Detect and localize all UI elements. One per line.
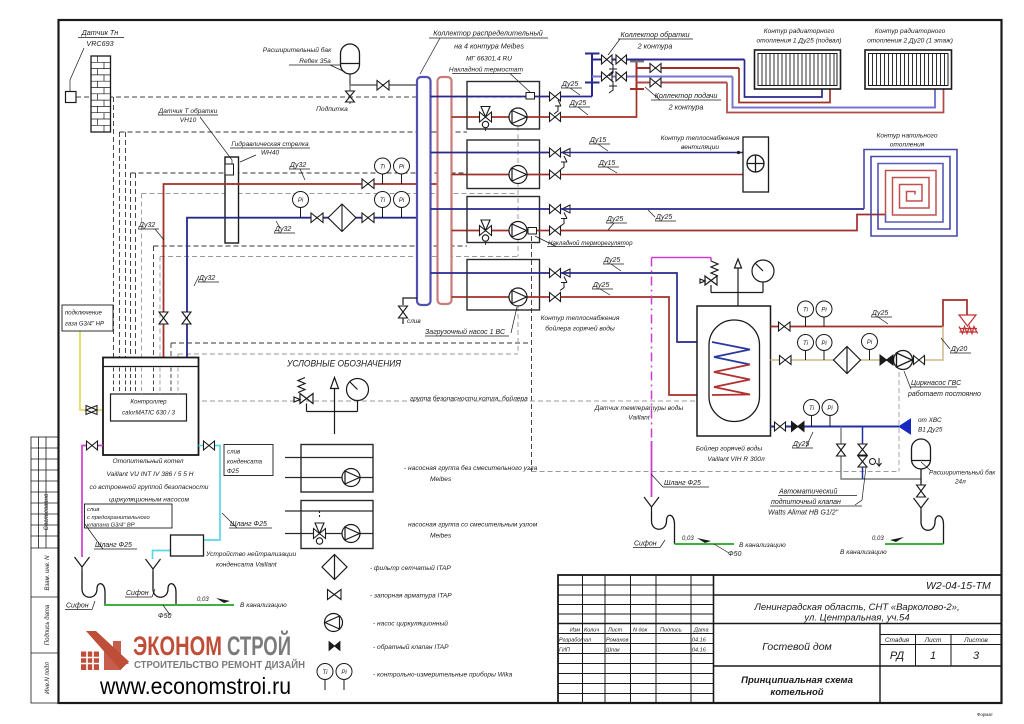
check valve recirc [880, 355, 893, 365]
svg-text:бойлера горячей воды: бойлера горячей воды [545, 325, 615, 333]
svg-text:Сифон: Сифон [66, 603, 89, 610]
funnel at expansion drain [914, 498, 929, 511]
svg-text:Ленинградская область, СНТ «Ва: Ленинградская область, СНТ «Варколово-2»… [753, 602, 959, 613]
svg-text:ул. Центральная, уч.54: ул. Центральная, уч.54 [803, 613, 909, 624]
DHW recirculation line beige [771, 327, 944, 361]
filter on recirc [834, 347, 861, 374]
valve after recirc pump [914, 356, 925, 365]
svg-text:Разработал: Разработал [559, 638, 591, 644]
gauges Ti Pi on red [375, 158, 410, 184]
gauge Pi on blue [293, 192, 309, 218]
svg-text:- фильтр сетчатый ITAP: - фильтр сетчатый ITAP [370, 564, 451, 572]
funnel left [75, 557, 90, 571]
relief drain magenta left [82, 446, 103, 558]
svg-text:Подпись: Подпись [660, 628, 682, 634]
ventilation heater box [743, 137, 769, 192]
svg-text:Ду32: Ду32 [289, 162, 306, 169]
filter on blue line [328, 204, 356, 232]
wire to make-up valve [532, 471, 900, 473]
make-up auto valve branch blue [862, 427, 864, 480]
group feed stubs blue [431, 97, 468, 274]
label leaders [84, 38, 950, 615]
group feed stubs red [452, 117, 468, 297]
svg-text:слив: слив [87, 507, 99, 513]
svg-text:слив: слив [407, 318, 421, 325]
svg-text:ЭКОНОМ: ЭКОНОМ [133, 631, 222, 661]
cold water line HVS [771, 426, 900, 428]
svg-text:2 контура: 2 контура [668, 103, 704, 112]
mixing valve G3 [480, 220, 492, 241]
svg-text:УСЛОВНЫЕ ОБОЗНАЧЕНИЯ: УСЛОВНЫЕ ОБОЗНАЧЕНИЯ [286, 359, 402, 369]
svg-text:Vaillant VIH R 300л: Vaillant VIH R 300л [707, 456, 765, 463]
svg-text:Коллектор подачи: Коллектор подачи [655, 91, 718, 100]
logo economstroi [80, 630, 305, 699]
svg-text:Ti: Ti [803, 308, 809, 314]
svg-text:- контрольно-измерительные при: - контрольно-измерительные приборы Wika [373, 671, 513, 679]
svg-text:отопления 1 Ду25 (подвал): отопления 1 Ду25 (подвал) [756, 37, 841, 45]
valve on blue riser [182, 312, 191, 324]
gas pipe yellow [80, 331, 103, 410]
svg-text:Vaillant: Vaillant [628, 415, 651, 422]
legend safety valve [294, 378, 358, 435]
svg-text:Листов: Листов [963, 637, 988, 644]
pipe G1 blue to return collector [561, 96, 593, 98]
siphon boiler drain [652, 512, 675, 544]
valve on blue line right [362, 213, 374, 223]
svg-text:Reflex 35а: Reflex 35а [299, 58, 331, 65]
svg-text:Контур теплоснабжения: Контур теплоснабжения [661, 134, 740, 142]
sewer line left [104, 604, 234, 606]
svg-text:Шланг Ф25: Шланг Ф25 [664, 480, 701, 487]
pipe boiler supply red Du32 [164, 184, 438, 358]
svg-text:calorMATIC 630 / 3: calorMATIC 630 / 3 [122, 410, 175, 417]
legend check valve [329, 642, 340, 651]
svg-text:Подпитка: Подпитка [316, 105, 348, 113]
mixing valve G1 [480, 107, 492, 128]
pump P4 loading [509, 288, 527, 306]
svg-text:Дата: Дата [693, 628, 709, 634]
wire thermostat G3 [531, 236, 533, 472]
svg-text:клапана G3/4" ВР: клапана G3/4" ВР [87, 523, 135, 529]
svg-text:Watts Alimat HB G1/2": Watts Alimat HB G1/2" [768, 510, 839, 517]
underlines [65, 38, 971, 610]
svg-text:конденсата: конденсата [227, 459, 263, 466]
svg-text:Ф25: Ф25 [227, 468, 239, 475]
svg-text:В канализацию: В канализацию [739, 542, 786, 549]
svg-text:Ду25: Ду25 [871, 310, 888, 317]
left stamp column [31, 437, 59, 703]
pipe boiler return blue Du32 [187, 218, 417, 358]
slope mark left [216, 598, 230, 603]
svg-text:Pi: Pi [827, 406, 833, 412]
wire bundle verticals to controller [114, 97, 172, 394]
svg-text:W2-04-15-TM: W2-04-15-TM [926, 580, 991, 592]
svg-text:отопления 2 Ду20 (1 этаж): отопления 2 Ду20 (1 этаж) [867, 38, 953, 45]
svg-text:Meibes: Meibes [430, 533, 452, 540]
recirc pump GVS [894, 351, 913, 370]
radiator 1 [755, 50, 841, 89]
svg-text:Ду25: Ду25 [561, 81, 578, 88]
valve on red line [362, 179, 374, 189]
magenta relief drain pipe [652, 258, 712, 498]
svg-text:Ду15: Ду15 [598, 160, 615, 167]
svg-text:Накладной терморегулятор: Накладной терморегулятор [548, 240, 633, 247]
gauges Ti Pi on recirc [798, 335, 833, 361]
svg-text:Коллектор обратки: Коллектор обратки [621, 30, 690, 39]
svg-text:1: 1 [930, 650, 936, 662]
gauges Ti Pi on DHW supply [798, 301, 833, 327]
svg-text:Накладной термостат: Накладной термостат [449, 66, 524, 74]
valve on red riser [159, 312, 168, 324]
boiler DHW circuit pipes [561, 273, 713, 342]
svg-text:слив: слив [227, 449, 241, 456]
svg-text:МГ 66301.4 RU: МГ 66301.4 RU [466, 56, 512, 63]
controller calorMATIC box [111, 394, 187, 421]
floor heating coil [864, 150, 957, 237]
hydraulic separator WH40 [224, 157, 240, 243]
valve on tank line [377, 81, 389, 91]
svg-text:N док: N док [633, 628, 648, 634]
valve on blue line left [311, 213, 323, 223]
wire horizontals [120, 131, 468, 133]
brick wall [91, 56, 111, 132]
expansion tank 24l [912, 439, 931, 469]
svg-text:Инв.N подл: Инв.N подл [45, 662, 51, 694]
pipe G1 red to supply collector [561, 89, 637, 117]
svg-text:Ду25: Ду25 [603, 257, 620, 264]
svg-text:Шпак: Шпак [606, 648, 620, 654]
svg-text:Принципиальная схема: Принципиальная схема [741, 675, 853, 686]
svg-text:от ХВС: от ХВС [918, 417, 942, 424]
make-up branch gray [841, 427, 921, 480]
svg-text:Гидравлическая стрелка: Гидравлическая стрелка [231, 140, 309, 148]
svg-text:Устройство нейтрализации: Устройство нейтрализации [205, 550, 296, 558]
svg-text:24л: 24л [954, 479, 966, 486]
svg-text:Взам. инв. N: Взам. инв. N [45, 555, 51, 591]
boiler Vaillant VU INT [103, 358, 199, 456]
radiator 2 [865, 50, 952, 89]
svg-text:Ду32: Ду32 [138, 222, 155, 229]
svg-text:Бойлер горячей воды: Бойлер горячей воды [696, 445, 763, 453]
svg-text:Pi: Pi [341, 670, 347, 676]
reducers on blue G2,G3,G4 outlets [562, 149, 570, 278]
supply collector 2 circuits [630, 62, 739, 90]
svg-text:Ду25: Ду25 [655, 214, 672, 221]
svg-text:VRC693: VRC693 [86, 39, 113, 48]
svg-text:Лист: Лист [607, 628, 623, 634]
svg-text:Циркнасос ГВС: Циркнасос ГВС [911, 380, 962, 387]
siphon left [82, 571, 105, 605]
svg-text:Согласовано: Согласовано [44, 493, 50, 530]
tank coil red [712, 365, 750, 396]
legend [285, 359, 538, 691]
svg-text:Колич: Колич [584, 628, 599, 634]
svg-text:0,03: 0,03 [682, 536, 694, 542]
svg-text:Контур радиаторного: Контур радиаторного [764, 27, 835, 35]
svg-text:РД: РД [890, 650, 904, 662]
siphon mid [153, 572, 176, 605]
svg-text:Vaillant VU INT IV 386 / 5 5 H: Vaillant VU INT IV 386 / 5 5 H [107, 471, 194, 478]
condensate drain cyan [153, 446, 221, 560]
svg-text:Pi: Pi [821, 341, 827, 347]
svg-text:с предохранительного: с предохранительного [87, 515, 151, 521]
svg-text:Ф50: Ф50 [728, 551, 741, 558]
legend filter [322, 555, 347, 580]
funnel at boiler drain [644, 497, 659, 512]
svg-text:Ду25: Ду25 [606, 216, 623, 223]
annotation labels [66, 27, 996, 620]
svg-text:Ду25: Ду25 [592, 282, 609, 289]
svg-text:Pi: Pi [821, 308, 827, 314]
outlet valves right of groups [550, 92, 561, 302]
svg-text:конденсата Vaillant: конденсата Vaillant [216, 561, 278, 569]
svg-text:Сифон: Сифон [126, 590, 149, 597]
expansion tank Reflex 35a [350, 74, 417, 85]
svg-text:СТРОИТЕЛЬСТВО РЕМОНТ ДИЗАЙН: СТРОИТЕЛЬСТВО РЕМОНТ ДИЗАЙН [134, 658, 305, 671]
svg-text:Отопительный котел: Отопительный котел [112, 457, 183, 465]
group internal lines [467, 97, 549, 274]
svg-text:Расширительный бак: Расширительный бак [263, 46, 332, 54]
svg-text:- насосная группа без смесител: - насосная группа без смесительного узла [404, 464, 538, 472]
thermostat G1 [526, 93, 535, 100]
wire pumps vertical [517, 126, 519, 257]
svg-text:группа безопасности котла, бой: группа безопасности котла, бойлера [410, 395, 528, 403]
svg-text:Подпись дата: Подпись дата [45, 604, 51, 645]
gas connection label box [62, 305, 113, 331]
shower head [959, 315, 978, 334]
svg-text:Ti: Ti [809, 406, 815, 412]
svg-text:Контур радиаторного: Контур радиаторного [875, 27, 946, 35]
DHW supply line to shower [771, 300, 968, 327]
svg-text:Ti: Ti [323, 670, 329, 676]
svg-text:Автоматический: Автоматический [778, 488, 837, 496]
svg-text:- обратный клапан ITAP: - обратный клапан ITAP [373, 643, 449, 651]
valve relief drain [87, 441, 98, 450]
svg-text:Расширительный бак: Расширительный бак [929, 469, 996, 477]
collector distribution bars [417, 77, 452, 305]
sewer line right [885, 543, 944, 545]
ventilation circuit pipes Du15 [561, 152, 744, 154]
svg-text:циркуляционным насосом: циркуляционным насосом [109, 497, 189, 504]
svg-text:отопления: отопления [890, 142, 925, 149]
valves supply collector [650, 64, 661, 88]
svg-text:Ti: Ti [380, 165, 386, 171]
svg-text:2 контура: 2 контура [637, 42, 673, 51]
svg-text:3: 3 [973, 650, 980, 662]
svg-text:Ду32: Ду32 [274, 226, 291, 233]
drain ticks return collector [609, 64, 617, 93]
return collector 2 circuits [585, 54, 745, 97]
valve on HVS [775, 422, 786, 431]
svg-text:Датчик Тн: Датчик Тн [81, 28, 119, 37]
svg-text:на 4 контура Meibes: на 4 контура Meibes [454, 42, 524, 51]
svg-text:Ду20: Ду20 [950, 346, 967, 353]
safety gauge [752, 260, 774, 282]
make-up valve podpitka [346, 85, 355, 104]
svg-text:подпиточный клапан: подпиточный клапан [771, 498, 841, 506]
house icon [80, 631, 129, 670]
legend valve [328, 590, 342, 600]
legend pump group box 1 [285, 445, 373, 493]
neutralizer box [171, 535, 204, 556]
control wiring dashed [76, 97, 899, 472]
svg-text:газа G3/4" НР: газа G3/4" НР [65, 322, 104, 328]
gauge Pi recirc pump [862, 334, 878, 361]
svg-text:- насос циркуляционный: - насос циркуляционный [373, 620, 448, 628]
svg-text:Лист: Лист [924, 637, 942, 644]
outdoor sensor Tn [66, 92, 77, 103]
leader to P4 [511, 307, 517, 333]
svg-text:Датчик температуры воды: Датчик температуры воды [594, 404, 684, 412]
svg-text:Ду25: Ду25 [569, 100, 586, 107]
valve on recirc at boiler [780, 356, 792, 365]
svg-text:Meibes: Meibes [430, 476, 452, 483]
svg-text:Ду15: Ду15 [589, 137, 606, 144]
svg-text:Pi: Pi [399, 165, 405, 171]
leader makeup valve [855, 467, 866, 505]
slope mark [697, 538, 711, 543]
svg-text:0,03: 0,03 [197, 597, 209, 603]
svg-text:Ti: Ti [803, 341, 809, 347]
pump P3 [509, 222, 527, 240]
svg-text:Pi: Pi [399, 198, 405, 204]
legend gauges TiPi [317, 664, 352, 691]
sliv condensata box [224, 445, 273, 476]
svg-text:Загрузочный насос 1 ВС: Загрузочный насос 1 ВС [425, 328, 506, 336]
drain ticks under blue outlet valves [554, 100, 567, 291]
svg-text:вентиляции: вентиляции [681, 144, 719, 151]
tank coil blue [712, 342, 750, 365]
svg-text:ГИП: ГИП [559, 648, 570, 654]
svg-text:Изм: Изм [570, 628, 580, 634]
svg-text:Романов: Романов [606, 638, 629, 644]
svg-text:Контроллер: Контроллер [130, 399, 167, 406]
sewer line middle [675, 543, 735, 545]
svg-text:Контур теплоснабжения: Контур теплоснабжения [541, 314, 620, 322]
pump P2 [509, 166, 527, 184]
svg-text:04.16: 04.16 [692, 638, 707, 644]
radiator circuit 1 piping [745, 60, 823, 98]
slope mark right [890, 537, 904, 542]
valves return collector row1 [602, 55, 627, 81]
sliv predohr box [85, 504, 173, 529]
wire sensor Tn to thermostat G1 [76, 96, 526, 98]
svg-text:0,03: 0,03 [872, 536, 884, 542]
HVS inlet triangle [899, 419, 911, 434]
svg-text:подключение: подключение [65, 311, 102, 317]
svg-text:Гостевой дом: Гостевой дом [762, 641, 832, 653]
safety group boiler: relief valve [700, 259, 763, 306]
radiator circuit 2 piping [733, 77, 936, 108]
wire stubs into controller [114, 368, 172, 395]
wire mixing valve G1 stub [485, 127, 487, 132]
svg-text:В канализацию: В канализацию [840, 549, 887, 556]
wire to boiler water sensor [186, 400, 697, 402]
svg-text:VH10: VH10 [180, 117, 197, 124]
pump P1 [509, 108, 527, 126]
legend pump group box 2 [285, 501, 373, 549]
svg-text:- запорная арматура ITAP: - запорная арматура ITAP [370, 593, 452, 600]
svg-text:Датчик Т обратки: Датчик Т обратки [158, 107, 218, 115]
svg-text:Сифон: Сифон [634, 541, 657, 548]
gauges Ti Pi on blue [375, 192, 410, 218]
gauges Ti Pi on HVS [804, 400, 839, 427]
svg-text:04.16: 04.16 [692, 648, 707, 654]
valve condensate [204, 441, 215, 450]
collector drain [403, 298, 417, 305]
svg-text:насосная группа со смесительны: насосная группа со смесительным узлом [408, 522, 538, 529]
svg-text:котельной: котельной [770, 687, 823, 698]
check valve on HVS [792, 422, 805, 432]
floor heating circuit pipes Du25 [561, 208, 865, 210]
svg-text:Ду32: Ду32 [198, 275, 215, 282]
svg-text:Формат: Формат [977, 712, 993, 717]
DHW tank Vaillant VIH R 300 [697, 306, 771, 436]
svg-text:WH40: WH40 [261, 150, 280, 157]
svg-text:www.economstroi.ru: www.economstroi.ru [99, 673, 291, 699]
pump group boxes [467, 82, 540, 311]
legend gauge [347, 379, 369, 401]
svg-text:работает постоянно: работает постоянно [907, 390, 981, 398]
svg-text:Стадия: Стадия [885, 636, 910, 644]
svg-text:Контур напольного: Контур напольного [876, 133, 937, 140]
funnel mid [146, 559, 161, 572]
svg-text:СТРОЙ: СТРОЙ [227, 630, 291, 661]
gas valve [86, 406, 97, 415]
svg-text:Коллектор распределительный: Коллектор распределительный [433, 29, 543, 38]
svg-text:Pi: Pi [298, 198, 304, 204]
title block [558, 575, 1002, 703]
svg-text:В канализацию: В канализацию [240, 602, 287, 609]
legend pump [325, 614, 343, 632]
svg-text:со встроенной группой безопасн: со встроенной группой безопасности [90, 483, 209, 491]
valve on DHW supply [779, 322, 791, 331]
svg-text:Ti: Ti [380, 198, 386, 204]
siphon right [921, 511, 944, 544]
leader датчик Тн [70, 48, 84, 91]
svg-text:В1 Ду25: В1 Ду25 [918, 427, 943, 434]
thermostat G3 [528, 228, 537, 235]
wire mixing valve G3 stub [485, 241, 487, 246]
svg-text:Pi: Pi [867, 340, 873, 346]
